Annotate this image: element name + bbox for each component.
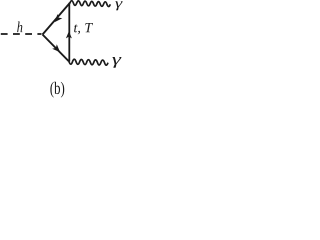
photon wavy line top [70,1,110,7]
caption (b) [50,82,64,98]
fermion loop upper edge (node V1 to node V2) [43,3,71,35]
higgs dashed propagator h [1,33,42,35]
arrow on upper edge [55,14,63,22]
label t, T [74,23,93,34]
fermion loop right vertical edge (node V3 to node V2) [68,3,70,62]
photon wavy line bottom [69,59,108,65]
label h [17,22,22,33]
label gamma top [115,1,122,10]
label gamma bottom [112,57,121,68]
fermion loop lower edge (node V1 to node V3) [43,35,70,62]
arrow on lower edge [52,44,60,52]
arrow on vertical edge [66,31,72,38]
